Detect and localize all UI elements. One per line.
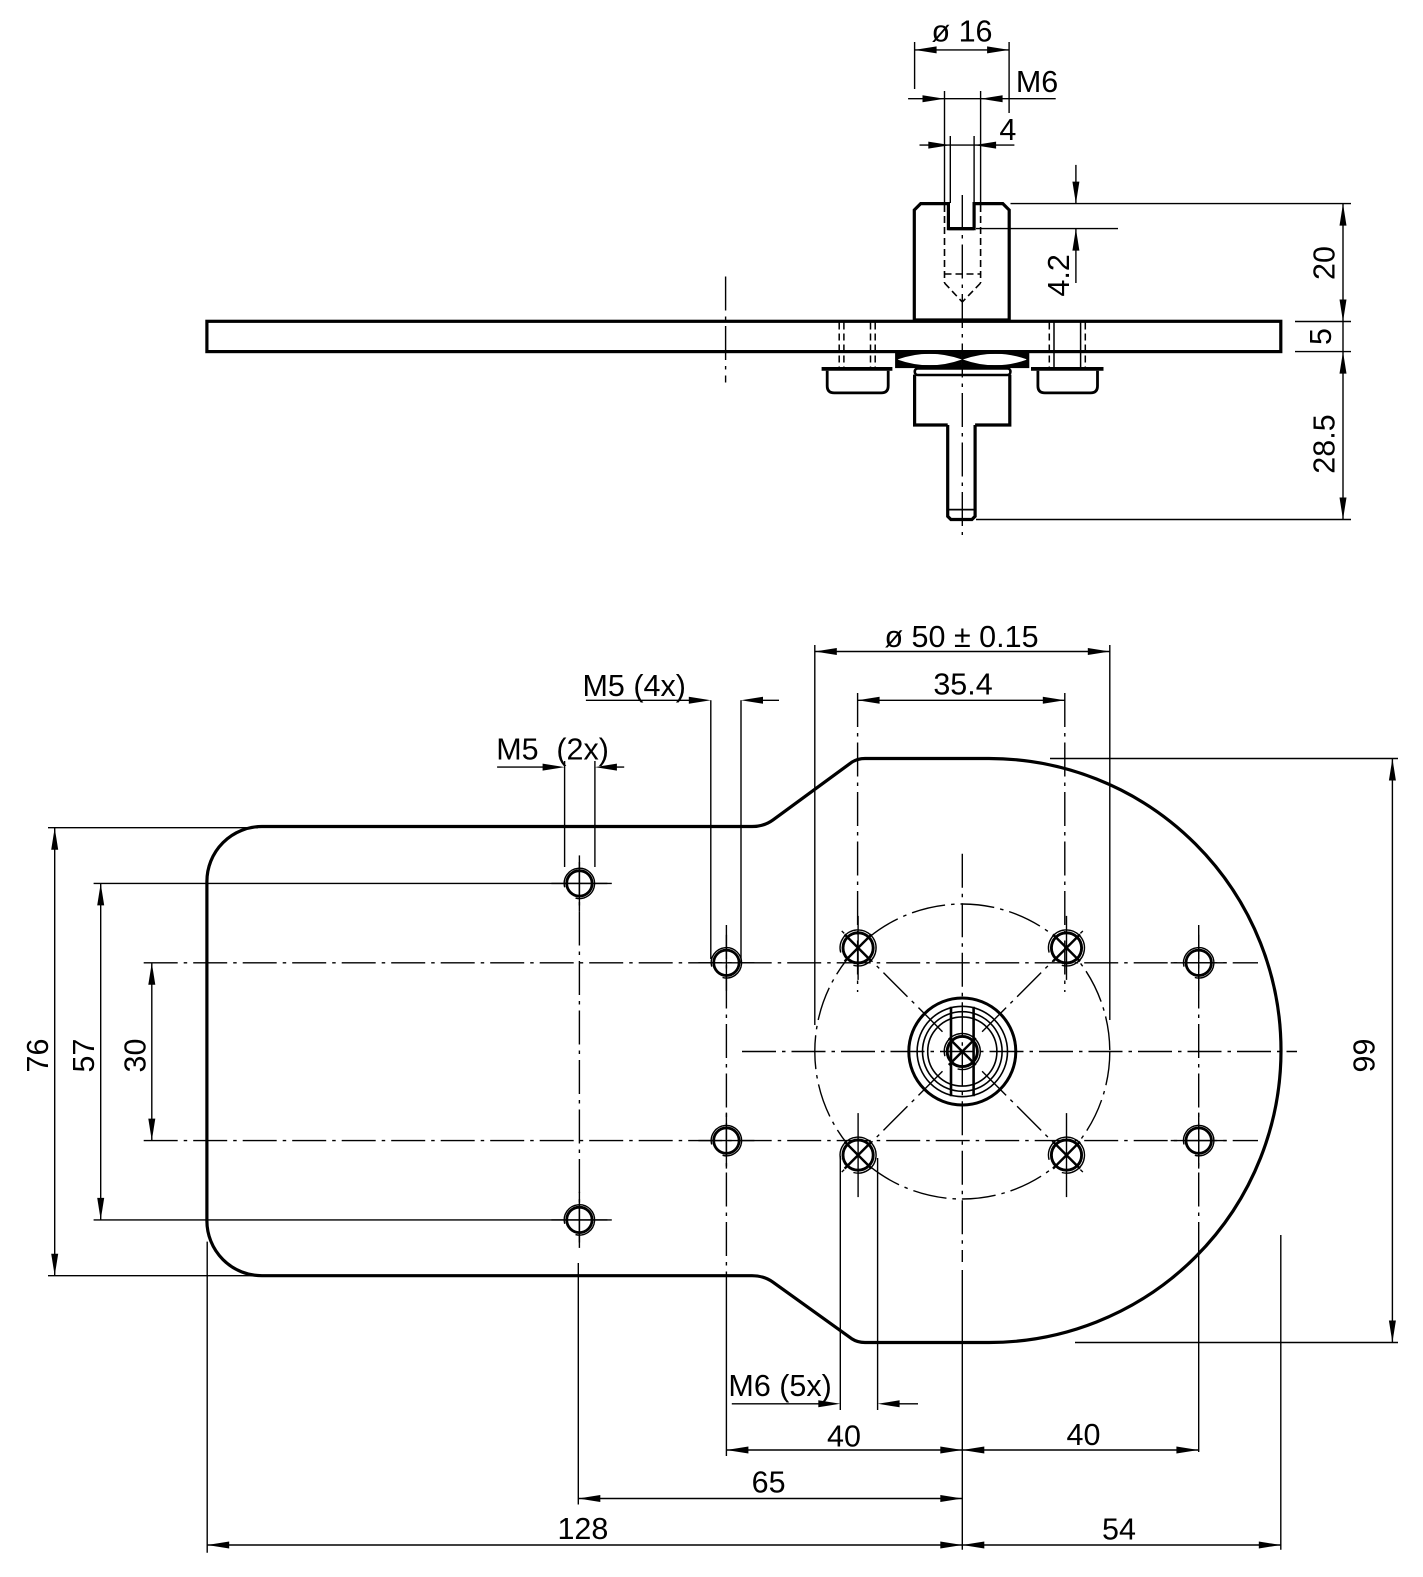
ref line shaft tip (976, 519, 1351, 521)
svg-text:5: 5 (1304, 328, 1338, 345)
side view: left screw flange washer (822, 367, 893, 371)
gear housing circle outer (909, 998, 1016, 1105)
centerline vertical M5(2x) column (578, 862, 580, 1245)
tapped hole M6 center (947, 1036, 977, 1066)
tapped hole M5 #1 (567, 871, 592, 896)
side view: output shaft (948, 425, 975, 520)
ext line plate right edge (1280, 1235, 1282, 1550)
svg-text:99: 99 (1348, 1039, 1382, 1073)
centerline horizontal gear axis (742, 1051, 1297, 1053)
svg-text:M6 (5x): M6 (5x) (728, 1369, 831, 1403)
side view: center axis line (961, 195, 963, 535)
side view: hidden tapped hole M6 in bushing (944, 205, 946, 283)
svg-text:28.5: 28.5 (1308, 414, 1342, 473)
ext line M5(2x) column to 65 (577, 1263, 579, 1505)
tapped hole M5 #5 (1186, 950, 1211, 975)
diagonal centerline SW (839, 1071, 943, 1175)
dim 99 line (1391, 759, 1393, 1343)
dim o50 ext lines (814, 645, 816, 1025)
tapped hole M6 #5 (1051, 1140, 1081, 1170)
dim 76 line (54, 828, 56, 1276)
side view: left screw hidden shank (838, 323, 840, 368)
svg-text:ø 50 ± 0.15: ø 50 ± 0.15 (884, 620, 1038, 654)
diagonal centerline NW (839, 928, 943, 1032)
side view: gearbox body below plate (915, 375, 1010, 425)
svg-text:57: 57 (67, 1039, 101, 1073)
gear slot walls (950, 1007, 953, 1097)
svg-text:54: 54 (1102, 1513, 1136, 1547)
dim o50 line (815, 651, 1110, 653)
side view: plate (section) (207, 321, 1281, 351)
gear circle 2 (917, 1006, 1007, 1096)
tapped hole M5 #6 (1186, 1128, 1211, 1153)
dim 35.4 ext lines (857, 693, 859, 992)
dim 30 line (151, 963, 153, 1141)
ref line bushing top (1011, 203, 1352, 205)
side view: left screw head (827, 371, 888, 393)
dim 40 right line (962, 1449, 1198, 1451)
side view: hole center mark left (40mm) (725, 277, 727, 383)
dim o16 extension lines (914, 42, 916, 89)
diagonal centerline NE (982, 928, 1086, 1032)
bolt circle o50 dash-dot (815, 904, 1110, 1199)
side view: right screw flange washer (1031, 367, 1104, 371)
plan view: plate outline (207, 759, 1281, 1343)
ext lines plate thickness (1295, 321, 1351, 323)
ext line plate left edge (206, 1242, 208, 1553)
tapped hole M6 #3 (1051, 933, 1081, 963)
svg-text:ø 16: ø 16 (931, 15, 992, 49)
dim 4 extension lines (949, 136, 951, 203)
dim 57 ext lines (94, 882, 612, 884)
centerline vertical M5(4x) left column (725, 925, 727, 1276)
tapped hole M6 #4 (843, 1140, 873, 1170)
svg-text:40: 40 (827, 1420, 861, 1454)
dim 76 ext lines (48, 827, 258, 829)
svg-text:M5 (4x): M5 (4x) (583, 669, 686, 703)
svg-text:4: 4 (999, 113, 1016, 147)
dim M6 line (908, 98, 1056, 100)
tapped hole M5 #3 (714, 950, 739, 975)
side view: toothed lock washer (897, 352, 1028, 366)
svg-text:65: 65 (752, 1466, 786, 1500)
dim 4.2 arrows (1075, 165, 1077, 204)
svg-text:128: 128 (557, 1512, 608, 1546)
centerline vertical M5(4x) right column (1198, 925, 1200, 1253)
svg-text:20: 20 (1308, 246, 1342, 280)
gear circle 3 (923, 1012, 1003, 1092)
dim 65 line (578, 1498, 962, 1500)
side view: right screw shank (1048, 323, 1050, 368)
svg-text:40: 40 (1067, 1418, 1101, 1452)
dim 128 line (207, 1544, 962, 1546)
dim o16 line (915, 49, 1010, 51)
svg-text:30: 30 (119, 1039, 153, 1073)
tapped hole M6 #2 (843, 933, 873, 963)
svg-text:35.4: 35.4 (933, 668, 992, 702)
dim 54 line (962, 1544, 1281, 1546)
gear circle 4 (928, 1017, 997, 1086)
dim M6 extension lines (944, 91, 946, 203)
centerline vertical gear axis (961, 854, 963, 1245)
svg-text:4.2: 4.2 (1042, 254, 1076, 296)
dim 4 line (920, 144, 1015, 146)
side view: slotted bushing body (914, 204, 1009, 321)
dim stack 20/5/28.5 line (1342, 204, 1344, 520)
extension gear axis to bottom dims (961, 1250, 963, 1262)
side view: gearbox flange bar (915, 368, 1011, 375)
dim 99 ext lines (1050, 758, 1398, 760)
dim 35.4 line (858, 699, 1065, 701)
centerline horizontal M5 row top (144, 962, 1258, 964)
diagonal centerline SE (982, 1071, 1086, 1175)
tapped hole M5 #4 (714, 1128, 739, 1153)
dim 57 line (100, 883, 102, 1220)
centerline horizontal M5 row bottom (144, 1140, 1258, 1142)
svg-text:76: 76 (21, 1039, 55, 1073)
svg-text:M6: M6 (1016, 65, 1058, 99)
tapped hole M5 #2 (567, 1207, 592, 1232)
ref line slot bottom (976, 228, 1118, 230)
svg-text:M5: M5 (496, 733, 538, 767)
dim 40 left line (726, 1449, 962, 1451)
side view: right screw head (1038, 371, 1098, 393)
